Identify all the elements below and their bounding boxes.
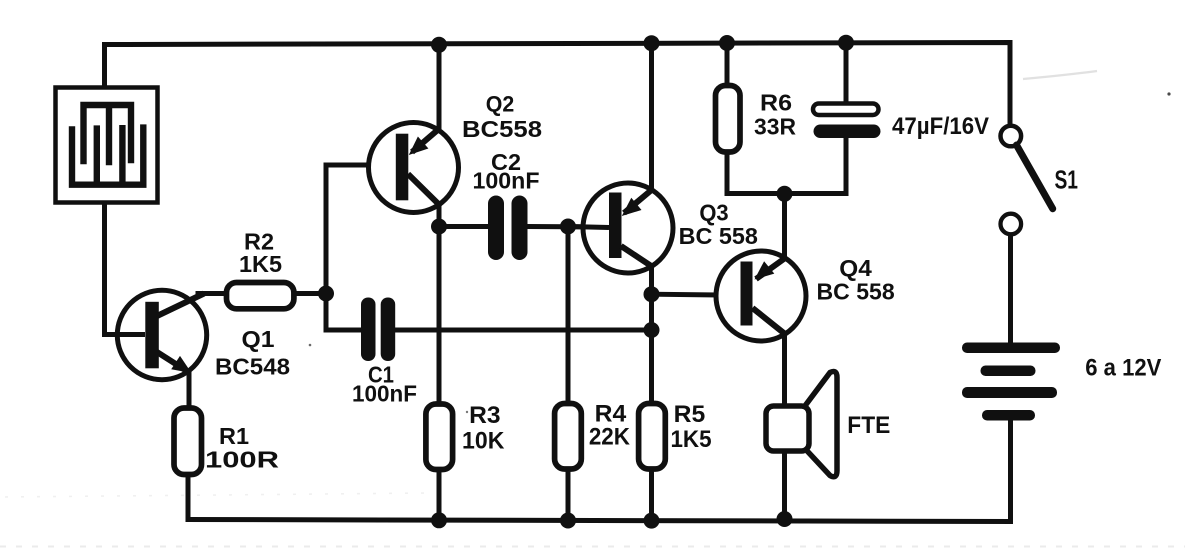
svg-text:33R: 33R (754, 114, 796, 140)
svg-text:Q1: Q1 (242, 326, 275, 352)
svg-text:10K: 10K (462, 428, 505, 455)
svg-text:BC 558: BC 558 (817, 278, 895, 304)
svg-text:Q3: Q3 (699, 199, 728, 225)
svg-text:BC558: BC558 (462, 116, 542, 142)
svg-text:6 a 12V: 6 a 12V (1085, 354, 1161, 381)
svg-text:47µF/16V: 47µF/16V (892, 113, 989, 140)
svg-text:22K: 22K (589, 424, 631, 451)
svg-text:R1: R1 (219, 423, 249, 449)
svg-text:S1: S1 (1054, 165, 1078, 195)
svg-text:1K5: 1K5 (239, 251, 282, 277)
svg-text:1K5: 1K5 (670, 426, 711, 453)
svg-text:100nF: 100nF (473, 168, 540, 194)
svg-text:R5: R5 (674, 401, 706, 428)
svg-text:Q4: Q4 (839, 255, 872, 281)
svg-text:BC 558: BC 558 (679, 223, 758, 249)
svg-text:BC548: BC548 (215, 354, 290, 380)
svg-text:Q2: Q2 (486, 92, 515, 117)
svg-text:R3: R3 (469, 402, 500, 429)
svg-text:R6: R6 (760, 90, 792, 116)
svg-text:100nF: 100nF (352, 381, 417, 407)
svg-text:100R: 100R (205, 447, 280, 473)
svg-text:FTE: FTE (847, 412, 890, 439)
